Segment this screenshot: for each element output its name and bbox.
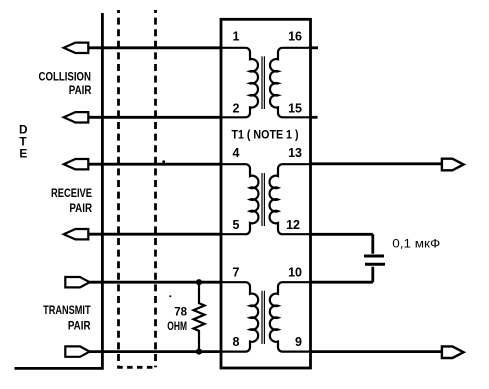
connector arrow pin 9 output (right) — [442, 346, 464, 358]
T1 winding C secondary (pins 10-9) — [270, 282, 311, 351]
connector arrow pin 13 output (right) — [442, 159, 464, 171]
svg-text:E: E — [19, 146, 27, 160]
transformer box T1 outline — [221, 19, 311, 368]
svg-text:0,1 мкФ: 0,1 мкФ — [392, 237, 440, 251]
svg-text:10: 10 — [288, 265, 302, 279]
svg-text:2: 2 — [233, 102, 240, 116]
T1 winding B secondary (pins 13-12) — [270, 164, 311, 234]
wire receive pair bottom (pin 5) — [87, 233, 221, 236]
wire pin 12 to capacitor — [311, 233, 373, 236]
wire receive pair top (pin 4) — [87, 163, 221, 166]
wire pin 13 output — [311, 162, 442, 165]
T1 winding C primary (pins 7-8) — [221, 282, 258, 351]
wire transmit pair bottom (pin 8) — [89, 350, 222, 353]
connector arrow pin 2 (left) — [64, 112, 89, 122]
svg-text:15: 15 — [288, 102, 302, 116]
wire transmit pair top (pin 7) — [89, 281, 222, 284]
svg-text:13: 13 — [288, 146, 302, 160]
svg-text:16: 16 — [288, 30, 302, 44]
svg-text:78: 78 — [174, 307, 187, 319]
connector arrow pin 7 (right-pointing) — [65, 277, 89, 287]
svg-text:PAIR: PAIR — [69, 85, 92, 97]
pin 15 stub — [311, 116, 318, 119]
svg-text:T1 ( NOTE 1 ): T1 ( NOTE 1 ) — [232, 129, 299, 141]
connector arrow pin 8 (right-pointing) — [65, 346, 89, 356]
T1 winding A core — [261, 56, 263, 109]
svg-text:12: 12 — [286, 218, 300, 232]
wire pin 10 to capacitor — [311, 281, 373, 284]
svg-text:RECEIVE: RECEIVE — [51, 188, 92, 200]
svg-text:8: 8 — [233, 335, 240, 349]
svg-text:TRANSMIT: TRANSMIT — [43, 305, 91, 317]
connector arrow pin 4 (left) — [64, 159, 89, 169]
svg-text:PAIR: PAIR — [69, 203, 92, 215]
capacitor C1 plates — [364, 255, 384, 258]
stray dot near receive wire — [162, 160, 165, 163]
wire pin 9 output — [311, 350, 442, 353]
svg-text:COLLISION: COLLISION — [39, 72, 92, 84]
svg-text:7: 7 — [233, 265, 240, 279]
capacitor C1 leads — [371, 234, 374, 282]
T1 winding C core — [261, 291, 263, 344]
svg-text:PAIR: PAIR — [68, 320, 91, 332]
wire collision pair top (pin 1) — [87, 46, 221, 49]
svg-text:OHM: OHM — [167, 321, 187, 333]
svg-text:5: 5 — [233, 218, 240, 232]
T1 winding A secondary (pins 16-15) — [270, 48, 311, 118]
junction dot pin 8 wire / resistor — [196, 349, 202, 355]
svg-text:9: 9 — [295, 335, 302, 349]
T1 winding B primary (pins 4-5) — [221, 164, 258, 234]
pin 16 stub — [311, 46, 319, 49]
T1 winding A primary (pins 1-2) — [221, 48, 258, 118]
svg-text:1: 1 — [233, 30, 240, 44]
resistor R1 78 OHM body — [194, 284, 205, 352]
junction dot pin 7 wire / resistor — [196, 279, 202, 285]
DTE boundary bracket (solid line) — [15, 13, 103, 368]
T1 winding B core — [261, 173, 263, 226]
cable boundary dashed line right — [154, 10, 157, 367]
cable boundary dashed line left — [117, 10, 120, 367]
stray dot near 78 ohm — [169, 295, 171, 297]
connector arrow pin 5 (left) — [64, 229, 89, 239]
svg-text:4: 4 — [233, 146, 240, 160]
connector arrow pin 1 (left) — [64, 43, 89, 53]
cable boundary dashed bottom closure — [117, 366, 157, 369]
wire collision pair bottom (pin 2) — [87, 116, 221, 119]
